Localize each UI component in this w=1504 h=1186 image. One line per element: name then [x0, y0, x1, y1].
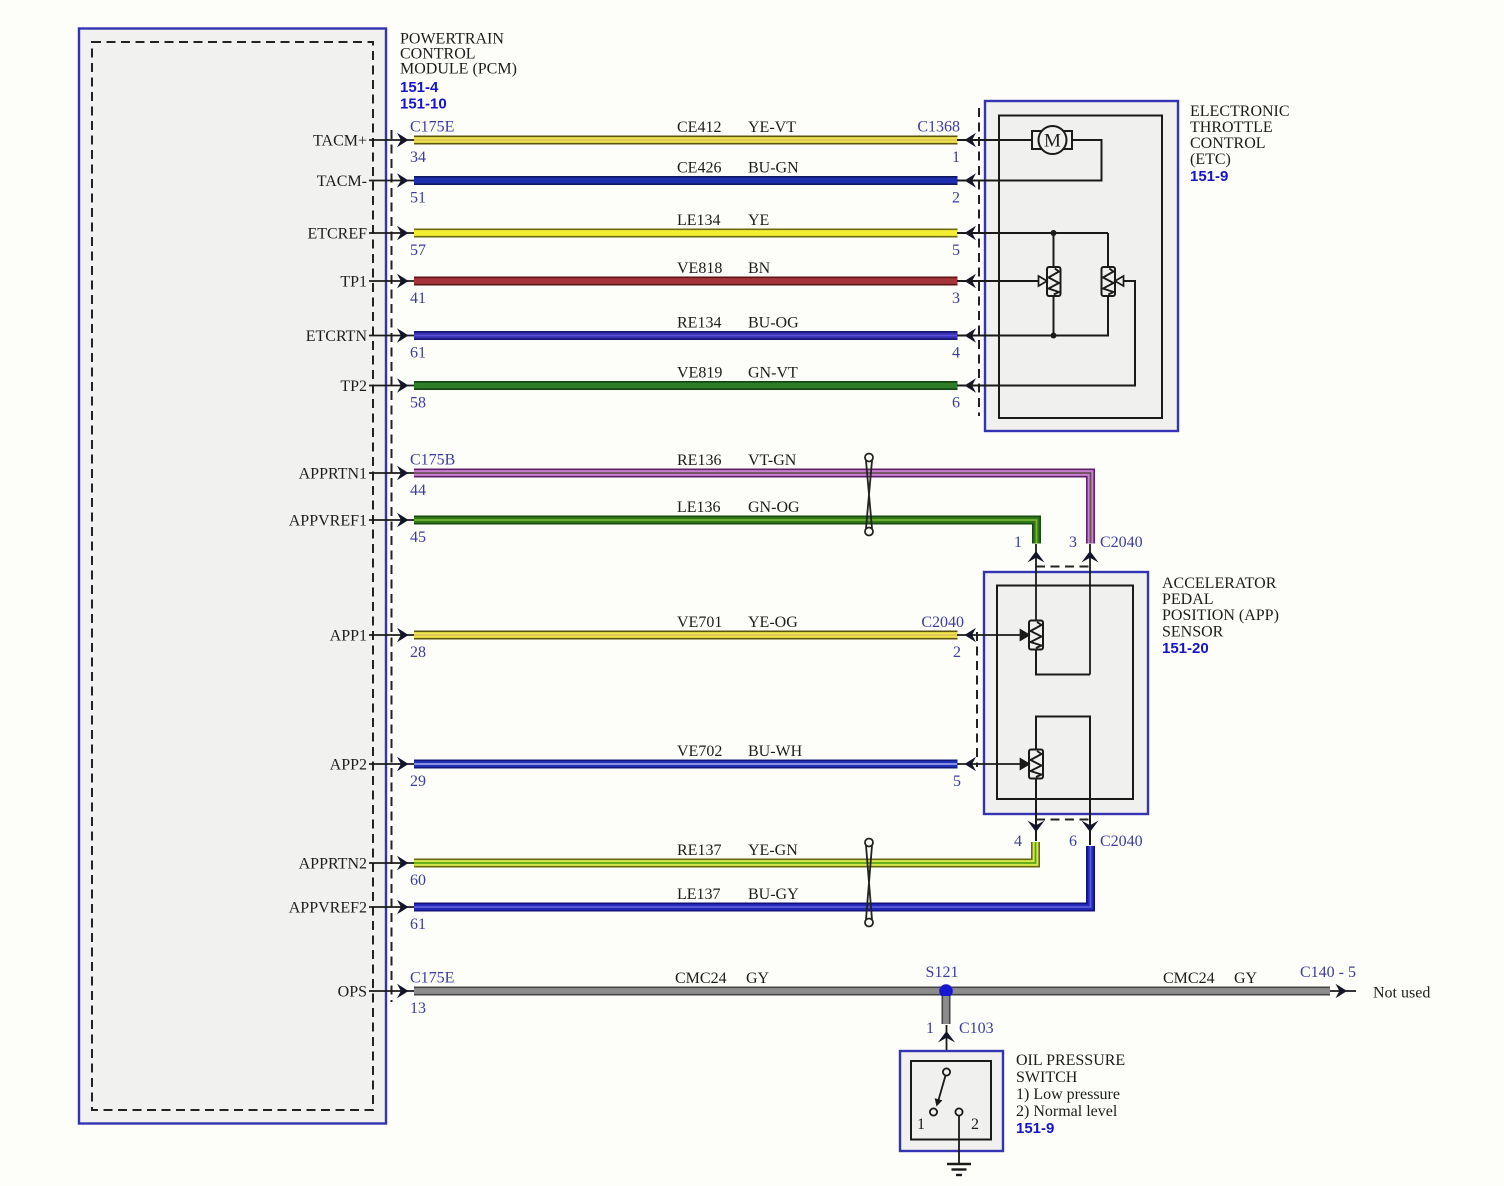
svg-text:1: 1 — [952, 149, 960, 166]
Not used label — [1373, 985, 1430, 1002]
svg-text:C2040: C2040 — [1100, 833, 1143, 850]
svg-text:6: 6 — [952, 395, 960, 412]
svg-text:LE136: LE136 — [677, 499, 721, 516]
svg-text:61: 61 — [410, 916, 426, 933]
wire LE137 BU-GY (APPVREF2 pin 61 to C2040 pin 6) — [289, 846, 1091, 933]
connector C175E label (OPS) — [410, 970, 454, 987]
svg-text:151-20: 151-20 — [1162, 640, 1209, 657]
svg-text:2: 2 — [971, 1116, 979, 1133]
APP pin1 lead-in arrow — [1027, 544, 1044, 621]
svg-text:3: 3 — [952, 290, 960, 307]
wire VE701 YE-OG (APP1 pin 28 to C2040 pin 2) — [330, 614, 1029, 661]
svg-text:4: 4 — [1014, 833, 1022, 850]
svg-text:CMC24: CMC24 — [1163, 970, 1215, 987]
PCM connector dashed line C175 — [391, 130, 393, 1002]
C2040 dashed top — [1036, 566, 1090, 568]
svg-text:BU-WH: BU-WH — [748, 743, 803, 760]
TP2 wiper line pin 6 — [957, 276, 1135, 386]
wire CE426 BU-GN (TACM- pin 51 to ETC pin 2) — [317, 160, 985, 207]
svg-text:APP1: APP1 — [330, 628, 367, 645]
twisted pair symbol (RE137/LE137) — [865, 839, 873, 927]
svg-text:CE412: CE412 — [677, 119, 721, 136]
APP lower pot bottom to pin 4 — [1035, 779, 1037, 842]
svg-text:VE818: VE818 — [677, 260, 722, 277]
svg-text:2) Normal level: 2) Normal level — [1016, 1103, 1118, 1120]
PCM inner dashed border — [92, 42, 373, 1110]
svg-text:BU-GN: BU-GN — [748, 160, 799, 177]
connector C175B label — [410, 452, 455, 469]
svg-text:SWITCH: SWITCH — [1016, 1069, 1078, 1086]
svg-text:APPRTN2: APPRTN2 — [299, 856, 367, 873]
svg-text:3: 3 — [1069, 534, 1077, 551]
wire VE702 BU-WH (APP2 pin 29 to C2040 pin 5) — [330, 743, 1029, 790]
svg-text:2: 2 — [953, 644, 961, 661]
svg-text:VE819: VE819 — [677, 365, 722, 382]
svg-text:1: 1 — [1014, 534, 1022, 551]
svg-text:CMC24: CMC24 — [675, 970, 727, 987]
svg-text:TP2: TP2 — [340, 378, 367, 395]
wire RE134 BU-OG (ETCRTN pin 61 to ETC pin 4) — [306, 315, 985, 362]
ground symbol — [947, 1164, 971, 1175]
svg-text:61: 61 — [410, 345, 426, 362]
svg-text:BU-GY: BU-GY — [748, 886, 799, 903]
ETC title text — [1190, 103, 1290, 185]
ETC pot supply line pin 5 — [957, 230, 1108, 267]
svg-text:VE702: VE702 — [677, 743, 722, 760]
APP connector dashed line C2040 left — [976, 632, 978, 767]
APP pin6 arrow down — [1081, 821, 1098, 833]
svg-text:APPRTN1: APPRTN1 — [299, 466, 367, 483]
wire CMC24 GY (OPS pin 13 to S121 to C140) — [338, 970, 1330, 1017]
svg-text:60: 60 — [410, 872, 426, 889]
APP pin4 arrow down — [1027, 821, 1044, 833]
svg-text:C175E: C175E — [410, 970, 454, 987]
svg-text:28: 28 — [410, 644, 426, 661]
svg-text:2: 2 — [952, 190, 960, 207]
svg-text:1: 1 — [917, 1116, 925, 1133]
svg-text:TACM-: TACM- — [317, 173, 367, 190]
wire LE134 YE (ETCREF pin 57 to ETC pin 5) — [307, 212, 985, 259]
svg-text:GY: GY — [1234, 970, 1258, 987]
svg-text:YE-OG: YE-OG — [748, 614, 798, 631]
svg-text:151-9: 151-9 — [1016, 1120, 1054, 1137]
svg-text:44: 44 — [410, 482, 426, 499]
svg-text:OPS: OPS — [338, 984, 367, 1001]
APP sensor box — [984, 572, 1148, 814]
ETC box — [985, 101, 1178, 431]
C2040 dashed bottom — [1036, 819, 1090, 821]
connector C2040 top labels and arrows — [1014, 534, 1143, 551]
svg-text:34: 34 — [410, 149, 426, 166]
svg-text:GY: GY — [746, 970, 770, 987]
svg-text:45: 45 — [410, 529, 426, 546]
svg-text:APPVREF1: APPVREF1 — [289, 513, 367, 530]
svg-text:C175B: C175B — [410, 452, 455, 469]
APP upper potentiometer — [1029, 621, 1043, 650]
svg-text:1: 1 — [926, 1020, 934, 1037]
svg-text:151-9: 151-9 — [1190, 168, 1228, 185]
svg-text:BN: BN — [748, 260, 771, 277]
wire end arrow C140 — [1330, 984, 1356, 998]
C103 arrow up — [938, 1025, 955, 1069]
wire LE136 GN-OG (APPVREF1 pin 45 to C2040 pin 1) — [289, 499, 1037, 546]
throttle motor M — [957, 126, 1072, 154]
APP pin3 lead-in arrow — [1081, 544, 1098, 675]
svg-text:CONTROL: CONTROL — [1190, 135, 1266, 152]
C140 - 5 label — [1300, 964, 1356, 981]
ETC potentiometer TP2 — [1102, 267, 1116, 296]
wire RE137 YE-GN (APPRTN2 pin 60 to C2040 pin 4) — [299, 842, 1036, 889]
wire RE136 VT-GN (APPRTN1 pin 44 to C2040 pin 3) — [299, 452, 1091, 544]
svg-text:C2040: C2040 — [1100, 534, 1143, 551]
svg-text:51: 51 — [410, 190, 426, 207]
connector C1368 label — [917, 119, 960, 136]
connector C2040 bottom labels and arrows — [1014, 833, 1143, 850]
svg-text:MODULE (PCM): MODULE (PCM) — [400, 61, 517, 78]
svg-text:TACM+: TACM+ — [313, 133, 367, 150]
svg-text:29: 29 — [410, 773, 426, 790]
ground lead — [958, 1116, 960, 1164]
svg-text:YE-VT: YE-VT — [748, 119, 796, 136]
S121 label — [926, 964, 959, 981]
switch common terminal — [943, 1068, 950, 1075]
svg-text:ETCREF: ETCREF — [307, 226, 367, 243]
oil pressure switch text — [1016, 1052, 1125, 1137]
oil pressure switch box — [900, 1051, 1003, 1151]
svg-text:58: 58 — [410, 395, 426, 412]
svg-text:SENSOR: SENSOR — [1162, 624, 1224, 641]
svg-text:5: 5 — [952, 242, 960, 259]
svg-text:M: M — [1044, 131, 1061, 152]
svg-text:C175E: C175E — [410, 119, 454, 136]
svg-text:APPVREF2: APPVREF2 — [289, 900, 367, 917]
svg-text:ETCRTN: ETCRTN — [306, 328, 368, 345]
wire VE819 GN-VT (TP2 pin 58 to ETC pin 6) — [340, 365, 985, 412]
svg-text:APP2: APP2 — [330, 757, 367, 774]
wire CE412 YE-VT (TACM+ pin 34 to ETC pin 1) — [313, 119, 985, 166]
svg-text:151-4: 151-4 — [400, 79, 439, 96]
svg-text:VE701: VE701 — [677, 614, 722, 631]
svg-text:PEDAL: PEDAL — [1162, 591, 1214, 608]
switch terminal 2 — [955, 1108, 979, 1133]
APP lower potentiometer — [1029, 750, 1043, 779]
svg-text:YE: YE — [748, 212, 769, 229]
svg-text:13: 13 — [410, 1000, 426, 1017]
svg-text:4: 4 — [952, 345, 960, 362]
svg-text:C2040: C2040 — [921, 614, 964, 631]
svg-text:LE137: LE137 — [677, 886, 721, 903]
svg-text:151-10: 151-10 — [400, 96, 447, 113]
svg-text:BU-OG: BU-OG — [748, 315, 799, 332]
svg-text:ELECTRONIC: ELECTRONIC — [1190, 103, 1290, 120]
svg-text:GN-OG: GN-OG — [748, 499, 800, 516]
svg-text:RE137: RE137 — [677, 842, 721, 859]
svg-text:57: 57 — [410, 242, 426, 259]
wire VE818 BN (TP1 pin 41 to ETC pin 3) — [340, 260, 985, 307]
svg-text:POSITION (APP): POSITION (APP) — [1162, 607, 1279, 624]
svg-text:5: 5 — [953, 773, 961, 790]
switch terminal 1 — [917, 1108, 937, 1133]
svg-text:1) Low pressure: 1) Low pressure — [1016, 1086, 1120, 1103]
APP lower pot link to pin 6 — [1036, 717, 1090, 846]
twisted pair symbol (RE136/LE136) — [865, 454, 873, 536]
svg-text:YE-GN: YE-GN — [748, 842, 798, 859]
svg-text:RE136: RE136 — [677, 452, 721, 469]
svg-text:VT-GN: VT-GN — [748, 452, 797, 469]
svg-text:41: 41 — [410, 290, 426, 307]
svg-text:6: 6 — [1069, 833, 1077, 850]
svg-text:ACCELERATOR: ACCELERATOR — [1162, 575, 1277, 592]
svg-text:OIL PRESSURE: OIL PRESSURE — [1016, 1052, 1125, 1069]
svg-text:C103: C103 — [959, 1020, 994, 1037]
splice stub wire CMC24 down — [942, 996, 951, 1024]
switch blade — [933, 1076, 946, 1108]
svg-text:C140 - 5: C140 - 5 — [1300, 964, 1356, 981]
svg-text:CE426: CE426 — [677, 160, 721, 177]
svg-text:GN-VT: GN-VT — [748, 365, 798, 382]
svg-text:Not used: Not used — [1373, 985, 1430, 1002]
svg-text:(ETC): (ETC) — [1190, 151, 1231, 168]
svg-text:TP1: TP1 — [340, 274, 367, 291]
PCM title text — [400, 31, 517, 113]
PCM module box — [79, 29, 386, 1124]
connector C103 labels — [926, 1020, 994, 1037]
svg-text:LE134: LE134 — [677, 212, 721, 229]
svg-text:C1368: C1368 — [917, 119, 960, 136]
APP title text — [1162, 575, 1279, 657]
ETC connector dashed line C1368 — [978, 108, 980, 416]
TP1 wiper line pin 3 — [957, 276, 1047, 286]
APP upper pot link to pin 3 — [1036, 650, 1090, 675]
ETC potentiometer TP1 — [1047, 267, 1061, 296]
motor return wire to pin 2 — [957, 140, 1102, 181]
svg-text:RE134: RE134 — [677, 315, 721, 332]
connector C175E label (top) — [410, 119, 454, 136]
svg-text:S121: S121 — [926, 964, 959, 981]
ETC pot return line pin 4 — [957, 296, 1108, 339]
svg-text:THROTTLE: THROTTLE — [1190, 119, 1273, 136]
splice S121 — [939, 984, 953, 998]
